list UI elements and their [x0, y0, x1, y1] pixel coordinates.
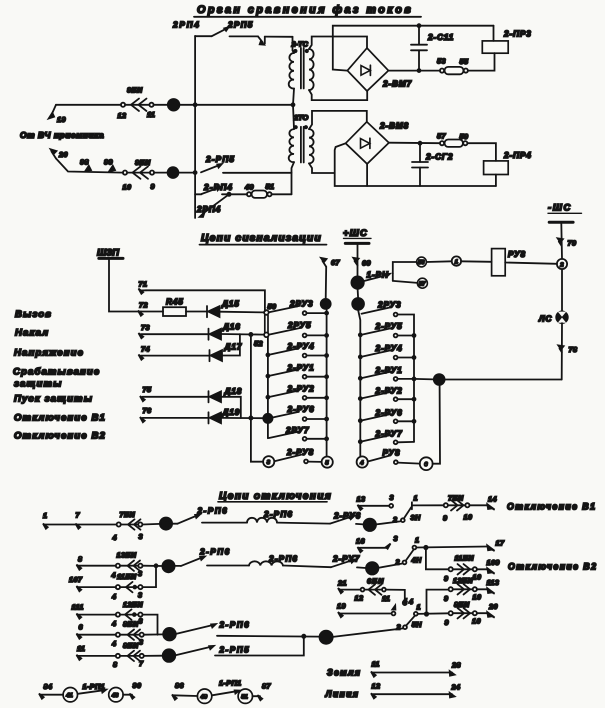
contact 7БИ (9,10)	[443, 494, 472, 523]
wire row C3 left	[77, 655, 116, 657]
terminal 79	[558, 238, 577, 247]
svg-text:Земля: Земля	[327, 668, 361, 678]
wire row B left	[77, 565, 116, 567]
node 55	[351, 276, 364, 289]
contact 12БИ (9,10)	[444, 576, 481, 603]
contact 2-РП5 row2	[201, 155, 292, 173]
label Земля terminals 11-28	[327, 660, 461, 678]
svg-text:10: 10	[473, 573, 482, 582]
svg-text:2-С11: 2-С11	[427, 33, 454, 42]
svg-text:2-РП5: 2-РП5	[219, 646, 251, 655]
transformer 2-ТС secondary winding	[309, 49, 314, 90]
svg-text:47: 47	[168, 171, 177, 178]
transformer 2ТО secondary winding	[309, 129, 314, 163]
2ТО secondary top lead / wire to bridge2 top	[309, 111, 367, 129]
terminal 7	[76, 511, 81, 529]
svg-text:7БИ: 7БИ	[120, 510, 136, 519]
T1 secondary bottom lead / rail to bridge1 bottom	[309, 90, 367, 100]
polarity dots 2ТО	[295, 126, 297, 128]
svg-text:2: 2	[395, 558, 400, 567]
svg-text:11: 11	[77, 644, 85, 653]
T1 primary bottom lead	[293, 89, 294, 105]
svg-text:10: 10	[123, 183, 132, 192]
contact 7БИ (4,3)	[112, 510, 143, 542]
wire 4Н down to row R1	[426, 548, 449, 570]
svg-text:защиты: защиты	[14, 379, 62, 390]
left ladder left bus	[267, 337, 269, 414]
svg-text:2ТО: 2ТО	[293, 113, 309, 122]
contact 8БИ (4,3)	[111, 620, 144, 649]
svg-text:R45: R45	[166, 298, 184, 307]
svg-text:57: 57	[419, 281, 426, 287]
svg-text:7: 7	[76, 511, 81, 520]
svg-text:19: 19	[57, 115, 66, 124]
diode Д18	[209, 387, 243, 418]
svg-text:2-ВМ8: 2-ВМ8	[379, 122, 409, 131]
svg-text:1: 1	[417, 603, 421, 612]
svg-text:6: 6	[79, 623, 84, 632]
contact 2-РУ6 (right ladder r6)	[359, 409, 416, 424]
node 28	[144, 649, 175, 662]
svg-text:71: 71	[139, 280, 148, 289]
terminal 78	[558, 345, 577, 354]
svg-text:Цепи отключения: Цепи отключения	[219, 491, 332, 502]
node 26	[366, 562, 379, 575]
svg-text:75: 75	[143, 385, 152, 394]
svg-text:17: 17	[496, 539, 505, 548]
svg-text:Срабатывание: Срабатывание	[13, 367, 100, 378]
node 2	[557, 259, 567, 269]
svg-text:Пуск защиты: Пуск защиты	[14, 394, 93, 405]
svg-text:10: 10	[464, 513, 473, 522]
contact 2РУ5 (left ladder r2)	[269, 321, 328, 337]
T1 secondary top lead / wire to bridge1 top	[309, 37, 367, 50]
svg-text:74: 74	[141, 345, 150, 354]
contact 2-РУ7 row B	[331, 555, 366, 569]
terminal 75	[140, 385, 208, 401]
svg-text:40: 40	[164, 632, 172, 639]
contact 8БИ (8,7)	[113, 641, 144, 669]
svg-text:52: 52	[254, 339, 263, 348]
svg-text:20: 20	[58, 150, 68, 159]
terminal 8	[77, 555, 83, 570]
svg-text:Цепи сигнализации: Цепи сигнализации	[201, 233, 322, 244]
svg-text:8БИ: 8БИ	[454, 600, 470, 609]
svg-text:54: 54	[264, 416, 271, 423]
svg-text:14: 14	[488, 495, 497, 504]
relay coil 2-РП6 row A	[247, 510, 330, 524]
terminal 20 right	[477, 602, 498, 617]
svg-text:43: 43	[111, 693, 119, 699]
terminal 73	[139, 323, 209, 338]
contact 2-РП5 row C3	[176, 636, 304, 655]
terminal 21 stub / contact 6БИ (12,11)	[337, 577, 413, 607]
svg-text:-ШС: -ШС	[548, 202, 572, 213]
svg-text:1: 1	[43, 511, 47, 520]
transformer 2ТО core	[300, 127, 302, 163]
terminal 84	[39, 682, 52, 699]
node 46	[154, 99, 196, 111]
svg-text:Д16: Д16	[222, 323, 241, 332]
svg-text:16: 16	[356, 537, 365, 546]
capacitor 2-СГ2	[412, 143, 453, 186]
wire row C left	[77, 614, 116, 616]
svg-text:От ВЧ приемника: От ВЧ приемника	[20, 130, 104, 140]
title: Цепи сигнализации	[200, 233, 327, 245]
svg-text:Д18: Д18	[224, 387, 243, 396]
terminal 1	[43, 511, 48, 529]
contact РУ8 (right ladder r8)	[357, 449, 433, 471]
svg-text:12: 12	[118, 111, 127, 120]
terminal 90	[130, 681, 142, 699]
svg-text:2-РП6: 2-РП6	[219, 621, 251, 630]
contact 1-РН	[364, 271, 417, 283]
svg-text:10: 10	[472, 617, 481, 626]
wire row2 left with plugs 98 99	[56, 158, 123, 173]
wire r4 to node 34	[414, 378, 434, 381]
svg-text:73: 73	[141, 323, 150, 332]
terminal 19 stub	[337, 597, 407, 618]
svg-text:28: 28	[451, 661, 461, 670]
svg-text:8БИ: 8БИ	[123, 620, 139, 629]
relay 2-ПР3	[482, 26, 531, 54]
wire row B2 join	[143, 566, 156, 587]
svg-text:3: 3	[138, 569, 142, 578]
terminal 17	[487, 539, 505, 551]
svg-text:113: 113	[487, 578, 500, 587]
svg-text:13: 13	[357, 495, 366, 504]
contact 2-РУ7 (right ladder r7)	[359, 430, 414, 445]
svg-text:12: 12	[372, 682, 381, 691]
terminal 13 stub	[357, 493, 394, 510]
svg-text:1: 1	[415, 536, 419, 545]
transformer 2ТО primary winding	[289, 129, 294, 162]
bridge2 left vertex vertical / bottom rail	[335, 143, 496, 186]
terminal 6	[77, 623, 84, 639]
svg-text:12: 12	[355, 594, 364, 603]
relay 2-ПР4	[484, 151, 532, 186]
wire DC row1 right	[388, 70, 440, 72]
terminal 16 stub	[356, 534, 398, 552]
wire row A left	[44, 524, 117, 526]
svg-text:46: 46	[168, 103, 177, 110]
node 38	[143, 560, 175, 572]
svg-text:1-РП1: 1-РП1	[219, 679, 242, 688]
wire row C2 left	[77, 634, 116, 636]
svg-text:2РП5: 2РП5	[227, 21, 254, 30]
contact 1-РП1 (41,43)	[40, 682, 132, 702]
contact 2-РУ2 (right ladder r5)	[359, 387, 416, 402]
node 47	[154, 167, 195, 178]
contact 2-РП6 row C2	[176, 621, 319, 638]
svg-text:36: 36	[162, 521, 169, 528]
svg-text:3: 3	[139, 532, 143, 541]
svg-text:57: 57	[437, 132, 446, 141]
svg-text:11: 11	[382, 594, 390, 603]
svg-text:1: 1	[414, 494, 418, 503]
contact 2-РУ6 (left ladder r6)	[273, 405, 329, 421]
svg-text:53: 53	[418, 260, 425, 266]
svg-text:11БИ: 11БИ	[455, 554, 475, 563]
junction Д16/Д17 merge dot	[249, 333, 252, 336]
svg-text:Отключение В1: Отключение В1	[507, 502, 596, 512]
svg-text:49: 49	[244, 183, 254, 192]
svg-text:9: 9	[151, 182, 155, 191]
contact 11БИ (4,3)	[111, 572, 142, 601]
diode Д19	[209, 408, 264, 424]
svg-text:2-ПР4: 2-ПР4	[503, 151, 532, 160]
svg-text:109: 109	[487, 558, 500, 567]
node 42	[321, 299, 331, 309]
svg-text:8: 8	[78, 555, 82, 564]
svg-text:Отключение В2: Отключение В2	[508, 562, 597, 572]
svg-text:28: 28	[164, 653, 172, 660]
contact 2-РУ8 (left ladder r8)	[263, 448, 333, 468]
svg-text:11БИ: 11БИ	[117, 572, 137, 581]
svg-text:78: 78	[569, 345, 578, 354]
svg-text:+ШС: +ШС	[343, 227, 368, 238]
svg-text:2-ВМ7: 2-ВМ7	[382, 80, 412, 89]
selector 4Н	[379, 536, 488, 568]
terminal 109	[477, 558, 500, 574]
svg-text:2-РП6: 2-РП6	[263, 510, 293, 519]
svg-text:4: 4	[111, 619, 116, 628]
2ТО secondary bottom lead	[309, 163, 335, 173]
svg-text:3: 3	[138, 591, 142, 600]
wire row B2 left	[77, 586, 116, 588]
svg-text:3: 3	[139, 617, 143, 626]
svg-text:ШЗП: ШЗП	[97, 247, 119, 258]
svg-text:Накал: Накал	[15, 328, 49, 339]
svg-text:38: 38	[164, 564, 171, 571]
svg-text:Отключение В1: Отключение В1	[14, 413, 106, 424]
2ТО primary bottom lead	[292, 162, 295, 194]
wire DC row2 right	[389, 142, 440, 145]
left ladder right bus	[326, 309, 328, 457]
svg-text:2-РП5: 2-РП5	[205, 155, 235, 164]
svg-text:8: 8	[113, 660, 117, 669]
svg-text:2-СГ2: 2-СГ2	[425, 153, 453, 162]
svg-text:99: 99	[104, 158, 113, 167]
svg-text:РУ8: РУ8	[508, 250, 526, 259]
node 34	[434, 374, 445, 385]
contact 2-РП6 row B	[175, 548, 249, 566]
svg-text:20: 20	[321, 635, 329, 642]
svg-text:55: 55	[353, 280, 361, 287]
svg-text:9: 9	[445, 618, 449, 627]
contact 2РП5 top	[227, 21, 293, 45]
svg-text:12БИ: 12БИ	[123, 600, 143, 609]
svg-text:69: 69	[362, 259, 371, 268]
svg-text:11: 11	[372, 660, 380, 669]
svg-text:3: 3	[390, 493, 394, 502]
contact 2РП4 loop	[196, 194, 229, 217]
wire row1 to transformer	[195, 104, 293, 106]
svg-text:ЛС: ЛС	[538, 315, 553, 324]
transformer 2-ТС primary winding	[289, 53, 294, 89]
svg-text:4: 4	[408, 597, 413, 606]
terminal 76	[140, 406, 208, 422]
node 54	[263, 414, 272, 423]
bus vertical left	[194, 36, 196, 218]
svg-text:79: 79	[568, 239, 577, 248]
svg-text:4Н: 4Н	[411, 556, 422, 565]
svg-text:2-ТС: 2-ТС	[291, 40, 309, 49]
svg-text:10: 10	[473, 593, 482, 602]
2ТО primary top lead	[293, 105, 294, 129]
svg-text:2: 2	[396, 623, 401, 632]
node 24	[364, 519, 377, 532]
svg-text:2-ПР3: 2-ПР3	[503, 30, 532, 39]
wire lamp to node 34	[445, 379, 562, 381]
svg-text:9БИ: 9БИ	[135, 158, 151, 167]
bridge rectifier 2-ВМ7	[347, 48, 412, 91]
title: Орган сравнения фаз токов	[194, 4, 421, 17]
contact 1-РП1 (49,51)	[173, 679, 260, 704]
svg-text:13БИ: 13БИ	[117, 551, 137, 560]
svg-text:86: 86	[175, 681, 184, 690]
svg-text:67: 67	[331, 258, 340, 267]
svg-text:53: 53	[437, 57, 446, 66]
contact 2-РУ4 (left ladder r3)	[266, 342, 328, 357]
terminal 86	[172, 681, 184, 700]
resistor 49-51	[244, 182, 292, 198]
svg-text:Орган сравнения фаз токов: Орган сравнения фаз токов	[197, 4, 413, 16]
svg-text:8БИ: 8БИ	[123, 641, 139, 650]
junction Д18/Д19 merge dot	[249, 416, 252, 419]
terminal 11 row C3	[77, 644, 86, 660]
wire resistor to relay 2-ПР4	[467, 143, 496, 161]
svg-text:72: 72	[139, 301, 148, 310]
wire resistor to relay 2-ПР3	[468, 53, 495, 70]
diode Д17	[210, 334, 243, 361]
svg-text:107: 107	[69, 575, 83, 584]
wire row 71	[146, 290, 265, 311]
contact 2-РУ2 (left ladder r5)	[266, 385, 328, 400]
svg-text:3: 3	[139, 638, 143, 647]
bus ШЗП	[97, 247, 141, 312]
svg-text:19: 19	[337, 602, 346, 611]
node 1	[452, 256, 461, 265]
wire 5Н up to row R2	[427, 590, 449, 614]
bus -ШС	[548, 202, 582, 259]
label Линия terminals 12-24	[325, 682, 461, 700]
node 40	[144, 628, 176, 641]
wire 53 to 1	[426, 260, 451, 263]
terminal 111	[72, 603, 84, 619]
contact 8БИ (9,10)	[445, 600, 481, 627]
svg-text:44: 44	[353, 302, 362, 309]
svg-text:1: 1	[455, 259, 458, 265]
svg-text:11: 11	[147, 110, 155, 119]
terminal 71	[139, 280, 148, 294]
wire row C join down	[143, 615, 158, 635]
terminal 113	[477, 578, 499, 594]
relay coil 2-РП6 row B	[249, 555, 331, 568]
svg-text:20: 20	[488, 602, 498, 611]
svg-text:90: 90	[133, 681, 142, 690]
contact 2РУ3 (left ladder r1)	[269, 300, 328, 316]
svg-text:4: 4	[111, 592, 116, 601]
contact 2РП4 top	[172, 21, 229, 37]
svg-text:50: 50	[268, 302, 277, 311]
terminal 69	[353, 258, 371, 268]
relay РУ8	[461, 249, 557, 276]
wire rail top / left DC vertical	[333, 26, 494, 71]
svg-text:87: 87	[262, 682, 271, 691]
node 44	[352, 289, 364, 310]
svg-text:21: 21	[337, 579, 347, 588]
svg-text:24: 24	[365, 523, 373, 530]
resistor 53-55	[437, 57, 469, 75]
contact 9БИ (10,9) row2	[123, 158, 155, 192]
polarity dots T1	[294, 50, 296, 52]
svg-text:Д19: Д19	[222, 408, 241, 417]
wire to primary T1	[293, 37, 295, 53]
bridge rectifier 2-ВМ8	[346, 122, 409, 164]
svg-text:49: 49	[200, 695, 208, 701]
contact 12БИ (4,3)	[111, 600, 143, 628]
contact 2-РУ1 (right ladder r4)	[359, 366, 416, 381]
capacitor 2-С11	[411, 24, 454, 70]
terminal 20	[51, 149, 68, 159]
svg-text:9: 9	[443, 514, 447, 523]
contact 2РУ3 (right ladder r1)	[362, 301, 415, 442]
terminal 72	[138, 301, 148, 316]
contact 2-РУ6 row A	[330, 512, 364, 525]
svg-text:Напряжение: Напряжение	[14, 348, 84, 359]
diode Д16	[209, 323, 265, 340]
selector 3Н	[376, 494, 421, 525]
svg-text:42: 42	[321, 302, 330, 309]
right ladder left bus	[358, 310, 360, 457]
svg-text:4: 4	[111, 639, 116, 648]
svg-text:24: 24	[451, 683, 461, 692]
svg-text:Д15: Д15	[221, 300, 240, 309]
svg-text:7: 7	[139, 659, 144, 668]
svg-text:41: 41	[65, 693, 72, 699]
svg-text:59: 59	[460, 132, 469, 141]
node 57	[417, 278, 427, 288]
selector 5Н	[333, 603, 449, 637]
connector pins 50-52	[254, 302, 276, 348]
contact 2-РУ1 (left ladder r4)	[266, 364, 328, 379]
svg-text:34: 34	[435, 377, 443, 384]
svg-text:4: 4	[111, 571, 116, 580]
svg-text:9: 9	[444, 574, 448, 583]
svg-text:7БИ: 7БИ	[448, 494, 464, 503]
svg-text:26: 26	[367, 566, 375, 573]
svg-text:84: 84	[44, 682, 53, 691]
terminal 19	[49, 105, 66, 124]
svg-text:Отключение В2: Отключение В2	[14, 431, 106, 442]
terminal 74	[139, 345, 210, 360]
node 36	[142, 517, 172, 529]
transformer 2-ТС core	[300, 48, 302, 89]
wire 3Н to 7БИ	[412, 504, 444, 506]
terminal 67	[321, 258, 340, 299]
resistor 57-59	[437, 132, 468, 147]
contact 9БИ (12,11) row1	[118, 86, 156, 121]
wire node34 down to row8	[433, 385, 440, 464]
svg-text:2: 2	[392, 515, 397, 524]
contact 2-РП6 row A	[172, 507, 247, 524]
svg-text:55: 55	[460, 57, 469, 66]
node 53	[417, 257, 427, 267]
bridge2 bottom lead	[366, 164, 368, 186]
wire long vertical to row 8	[251, 335, 263, 462]
svg-text:3Н: 3Н	[411, 513, 421, 522]
